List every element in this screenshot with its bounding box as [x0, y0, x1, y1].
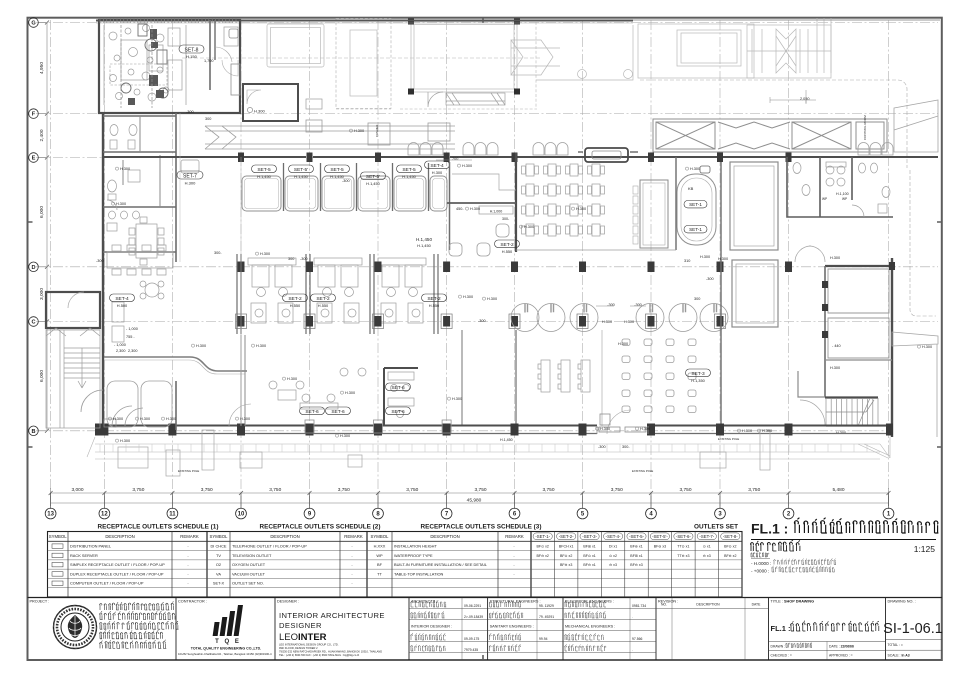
svg-text:3,750: 3,750 [338, 487, 350, 493]
svg-text:H.300: H.300 [618, 342, 628, 346]
H.1,000 small tables [0, 0, 1, 1]
svg-text:SET-5: SET-5 [330, 167, 344, 173]
reception counter [104, 357, 247, 371]
svg-text:TEL : (+66 2) 6601700 FAX :: TEL : (+66 2) 6601700 FAX : (+66 2) 6601… [279, 653, 360, 657]
svg-text:C: C [31, 320, 35, 326]
hall wall x721 [720, 162, 722, 426]
svg-text:DESCRIPTION: DESCRIPTION [105, 534, 134, 539]
svg-text:99.94: 99.94 [539, 637, 548, 641]
svg-text:D: D [31, 265, 35, 271]
svg-text:300: 300 [694, 297, 700, 301]
svg-text:2,300: 2,300 [128, 349, 138, 353]
svg-text:3,000: 3,000 [39, 288, 45, 300]
svg-text:- 440: - 440 [832, 344, 841, 348]
waiting chairs rows [408, 143, 893, 156]
svg-text:H.1,100: H.1,100 [836, 192, 849, 196]
grid bubbles left [29, 18, 47, 436]
svg-text:BF⊞ x1: BF⊞ x1 [583, 545, 595, 549]
svg-text:TT⊖ x3: TT⊖ x3 [677, 554, 689, 558]
small tables near SET-6 [300, 368, 366, 409]
svg-text:.: . [632, 648, 633, 652]
svg-text:SET-6: SET-6 [331, 409, 345, 415]
svg-text:BF: BF [377, 562, 383, 567]
svg-text:H.150: H.150 [186, 54, 197, 59]
meeting room walls [515, 153, 517, 252]
svg-text:1,700: 1,700 [204, 59, 214, 63]
interior light column grid squares mid hall [305, 420, 451, 433]
svg-text:BF⊙ x2: BF⊙ x2 [724, 545, 736, 549]
lounge booths [107, 381, 172, 427]
svg-text:-SET-4-: -SET-4- [606, 534, 621, 539]
svg-text:SI-1-06.1: SI-1-06.1 [883, 621, 943, 637]
svg-text:310: 310 [684, 259, 690, 263]
svg-text:DI CHCE: DI CHCE [211, 544, 227, 549]
SET-7 label [181, 160, 199, 173]
svg-text:H.300: H.300 [113, 417, 123, 421]
svg-text:BF⊖ x2: BF⊖ x2 [724, 554, 736, 558]
svg-text:DESCRIPTION: DESCRIPTION [430, 534, 459, 539]
svg-text:-SET-6-: -SET-6- [676, 534, 691, 539]
svg-text:300: 300 [205, 117, 211, 121]
office roomlet x449-516 [447, 162, 516, 256]
svg-text:REMARK: REMARK [180, 534, 199, 539]
svg-text:H.300: H.300 [718, 257, 728, 261]
svg-text:RECEPTACLE OUTLETS SCHEDULE (1: RECEPTACLE OUTLETS SCHEDULE (1) [98, 524, 219, 531]
svg-text:CHECKED : =: CHECKED : = [771, 654, 792, 658]
svg-text:SIMPLEX RECEPTACLE OUTLET / FL: SIMPLEX RECEPTACLE OUTLET / FLOOR / POP-… [70, 562, 165, 567]
svg-text:BF⊖ x3: BF⊖ x3 [654, 545, 666, 549]
svg-text:BFCH x1: BFCH x1 [559, 545, 574, 549]
svg-text:99th FLOOR, DESIGN TOWER 2: 99th FLOOR, DESIGN TOWER 2 [279, 646, 318, 650]
door arcs corridor right [795, 246, 825, 262]
toilet fixtures left wing [107, 125, 140, 232]
svg-text:-300: -300 [634, 303, 642, 307]
columns rows D and C [238, 262, 793, 327]
svg-text:⊖ x3: ⊖ x3 [609, 563, 617, 567]
svg-text:H.300: H.300 [602, 320, 612, 324]
svg-text:H.300: H.300 [260, 252, 270, 256]
svg-text:1:125: 1:125 [914, 544, 936, 554]
svg-text:PROJECT :: PROJECT : [30, 600, 50, 604]
svg-text:DATE: DATE [752, 603, 762, 607]
svg-text:H.500: H.500 [117, 303, 128, 308]
svg-text:79. 49291: 79. 49291 [539, 615, 554, 619]
svg-text:H.300: H.300 [463, 295, 473, 299]
svg-text:E: E [32, 156, 36, 162]
svg-text:95. 11929: 95. 11929 [539, 604, 554, 608]
svg-text:EXISTING POLE: EXISTING POLE [178, 469, 199, 473]
svg-text:TOTAL : =: TOTAL : = [888, 643, 903, 647]
svg-text:⊙ x1: ⊙ x1 [703, 545, 711, 549]
left wing lower entry doors [81, 390, 143, 426]
svg-text:09-06.2291: 09-06.2291 [464, 604, 481, 608]
svg-text:- 1,000: - 1,000 [114, 343, 126, 347]
svg-text:SET-X: SET-X [213, 581, 225, 586]
canopy tick marks below B wall [100, 444, 867, 452]
west wall of hall seating area [515, 330, 517, 430]
svg-text:3,750: 3,750 [611, 487, 623, 493]
svg-text:DRAWN :: DRAWN : [771, 645, 786, 649]
svg-text:-SET-5-: -SET-5- [629, 534, 644, 539]
svg-text:⊖ x3: ⊖ x3 [703, 554, 711, 558]
svg-text:SET-6: SET-6 [305, 409, 319, 415]
svg-text:SET-2: SET-2 [500, 242, 514, 248]
bottom exterior wall B [95, 426, 892, 434]
ramp wedges right [892, 332, 938, 346]
svg-text:H.XXX: H.XXX [374, 544, 386, 549]
svg-text:EXISTING POLE: EXISTING POLE [632, 469, 653, 473]
svg-text:MECHANICAL ENGINEERS :: MECHANICAL ENGINEERS : [565, 625, 615, 629]
svg-text:H.300: H.300 [690, 167, 700, 171]
receptacle outlets schedule tables [48, 524, 743, 598]
svg-text:BF⊖ x3: BF⊖ x3 [560, 563, 572, 567]
svg-text:INTERIOR ARCHITECTURE: INTERIOR ARCHITECTURE [279, 611, 385, 620]
svg-text:-SET-2-: -SET-2- [559, 534, 574, 539]
partition near SET-8 [214, 20, 216, 60]
svg-text:H.300: H.300 [462, 164, 472, 168]
svg-text:REMARK: REMARK [344, 534, 363, 539]
svg-text:TT: TT [377, 571, 382, 576]
roof outline rects top band [267, 18, 831, 109]
svg-text:2>-09.18439: 2>-09.18439 [464, 615, 483, 619]
svg-text:.: . [632, 615, 633, 619]
svg-text:H.550: H.550 [290, 303, 301, 308]
svg-text:6,000: 6,000 [39, 370, 45, 382]
svg-text:H.300: H.300 [256, 344, 266, 348]
svg-text:H.300: H.300 [354, 129, 364, 133]
dashed ceiling boundary [640, 80, 907, 168]
canopy below B [87, 437, 890, 459]
svg-text:H.1,450: H.1,450 [294, 174, 308, 179]
svg-text:H.300: H.300 [120, 167, 130, 171]
svg-text:DESIGNER: DESIGNER [279, 621, 322, 630]
svg-text:3,750: 3,750 [475, 487, 487, 493]
title block [28, 598, 943, 661]
conference table [640, 180, 668, 248]
svg-text:REMARK: REMARK [505, 534, 524, 539]
svg-text:H.300: H.300 [452, 397, 462, 401]
svg-text:H.300: H.300 [470, 207, 480, 211]
svg-text:SET-8: SET-8 [185, 47, 199, 53]
svg-text:H.300: H.300 [185, 181, 196, 186]
svg-text:H.300: H.300 [240, 417, 250, 421]
drawing title FL.1 Thai [751, 518, 939, 574]
round tables [511, 304, 728, 332]
svg-text:-300: -300 [300, 257, 308, 261]
svg-text:LEOINTER: LEOINTER [279, 632, 327, 643]
svg-text:H.300: H.300 [287, 377, 297, 381]
svg-text:TABLE-TOP INSTALLATION: TABLE-TOP INSTALLATION [394, 571, 444, 576]
svg-text:VA: VA [216, 571, 221, 576]
svg-text:300: 300 [288, 257, 294, 261]
svg-text:12: 12 [101, 512, 108, 518]
entry gap dims between tables [602, 303, 642, 324]
svg-text:TITLE : SHOP DRAWING: TITLE : SHOP DRAWING [771, 600, 815, 604]
svg-text:- +0000 :: - +0000 : [751, 569, 769, 574]
svg-text:H.300: H.300 [762, 429, 772, 433]
svg-text:WP: WP [376, 553, 383, 558]
svg-text:3,750: 3,750 [748, 487, 760, 493]
svg-text:H.300: H.300 [830, 256, 840, 260]
kiosk counter SET-1 [677, 174, 716, 245]
svg-text:SET-5: SET-5 [402, 167, 416, 173]
svg-text:H.300: H.300 [166, 417, 176, 421]
svg-text:SET-5: SET-5 [257, 167, 271, 173]
svg-text:H.550: H.550 [318, 303, 329, 308]
svg-text:INSTALLATION HEIGHT: INSTALLATION HEIGHT [394, 544, 437, 549]
svg-text:-300: -300 [342, 179, 350, 183]
top wall hatch ticks [100, 19, 236, 24]
svg-text:BF⊞ x1: BF⊞ x1 [630, 554, 642, 558]
svg-text:7979.435: 7979.435 [464, 648, 478, 652]
equipment room [99, 20, 240, 113]
svg-text:13: 13 [47, 512, 54, 518]
grid E wall [103, 156, 938, 158]
svg-text:TV: TV [216, 553, 221, 558]
svg-text:DESCRIPTION: DESCRIPTION [270, 534, 299, 539]
svg-text:SET-5': SET-5' [294, 167, 308, 173]
svg-text:3,000: 3,000 [71, 487, 83, 493]
dimension chain bottom [51, 488, 889, 506]
svg-text:09-09.175: 09-09.175 [464, 637, 479, 641]
bench seat dark [585, 148, 628, 162]
svg-text:DI x1: DI x1 [609, 545, 617, 549]
svg-text:CONTRACTOR :: CONTRACTOR : [178, 600, 207, 604]
svg-text:T Q E: T Q E [215, 639, 241, 645]
svg-text:WP: WP [842, 197, 847, 201]
svg-text:RECEPTACLE OUTLETS SCHEDULE (3: RECEPTACLE OUTLETS SCHEDULE (3) [421, 524, 542, 531]
svg-text:SET-2: SET-2 [427, 296, 441, 302]
toilets right [787, 157, 893, 217]
svg-text:DISTRIBUTION PANEL: DISTRIBUTION PANEL [70, 544, 112, 549]
svg-text:H.1,450: H.1,450 [500, 438, 513, 442]
svg-text:LEO INTERNATIONAL DESIGN GROUP: LEO INTERNATIONAL DESIGN GROUP CO., LTD. [279, 643, 339, 647]
svg-text:BF⊙ x1: BF⊙ x1 [583, 554, 595, 558]
svg-text:2,400: 2,400 [39, 129, 45, 141]
svg-text:H.300: H.300 [624, 320, 634, 324]
right rooms [825, 265, 892, 267]
svg-text:300-: 300- [502, 217, 510, 221]
svg-text:CONTROL ROOM: CONTROL ROOM [863, 115, 867, 140]
svg-text:BF⊙ x2: BF⊙ x2 [537, 545, 549, 549]
svg-text:-SET-7-: -SET-7- [699, 534, 714, 539]
svg-text:300-: 300- [622, 445, 630, 449]
svg-text:DATE : 22/06/66: DATE : 22/06/66 [829, 645, 854, 649]
svg-text:H.1,450: H.1,450 [366, 181, 380, 186]
svg-text:TOTAL QUALITY ENGINEERING CO.,: TOTAL QUALITY ENGINEERING CO.,LTD. [191, 647, 262, 651]
dark machines [128, 29, 164, 105]
svg-text:FL.1 :: FL.1 : [751, 521, 788, 537]
structural grid dash-dot lines [36, 20, 938, 508]
svg-text:RECEPTACLE OUTLETS SCHEDULE (2: RECEPTACLE OUTLETS SCHEDULE (2) [260, 524, 381, 531]
svg-text:BUILT-IN FURNITURE INSTALLATIO: BUILT-IN FURNITURE INSTALLATION / SEE DE… [394, 562, 488, 567]
svg-text:EXISTING POLE: EXISTING POLE [718, 437, 739, 441]
svg-text:BF⊖ x2: BF⊖ x2 [537, 554, 549, 558]
svg-text:B: B [31, 429, 35, 435]
svg-text:SET-4: SET-4 [430, 163, 444, 169]
svg-text:6,000: 6,000 [39, 206, 45, 218]
svg-text:97.566: 97.566 [632, 637, 642, 641]
svg-text:- 1,000: - 1,000 [126, 327, 138, 331]
svg-text:H.300: H.300 [524, 225, 534, 229]
svg-text:OXYGEN OUTLET: OXYGEN OUTLET [232, 562, 266, 567]
lift shafts [730, 162, 778, 250]
top exterior wall [96, 19, 940, 21]
svg-text:WATERPROOF TYPE: WATERPROOF TYPE [394, 553, 433, 558]
SET-5 booths [242, 176, 447, 211]
svg-text:SET-2: SET-2 [316, 296, 330, 302]
svg-text:H.300: H.300 [600, 427, 610, 431]
machine tracks dashed [121, 25, 152, 108]
svg-text:NO.: NO. [661, 603, 667, 607]
svg-text:COMPUTER OUTLET / FLOOR / POP-: COMPUTER OUTLET / FLOOR / POP-UP [70, 581, 144, 586]
svg-text:SET-6: SET-6 [391, 409, 405, 415]
svg-text:H.300: H.300 [640, 427, 650, 431]
SET-2 labels [283, 240, 520, 302]
svg-text:TELEVISION OUTLET: TELEVISION OUTLET [232, 553, 272, 558]
left wing walls [102, 113, 104, 430]
svg-text:3,750: 3,750 [542, 487, 554, 493]
grid bubbles bottom [45, 508, 894, 519]
svg-text:4,950: 4,950 [39, 62, 45, 74]
columns row E [238, 153, 792, 163]
svg-text:INTERIOR DESIGNER :: INTERIOR DESIGNER : [411, 625, 452, 629]
svg-text:2,300: 2,300 [116, 349, 126, 353]
svg-text:5,480: 5,480 [832, 487, 844, 493]
svg-text:H.300: H.300 [700, 255, 710, 259]
svg-text:H.1,450: H.1,450 [417, 243, 431, 248]
svg-text:-SET-5'-: -SET-5'- [652, 534, 668, 539]
svg-text:-300: -300 [706, 277, 714, 281]
meeting tables [522, 164, 605, 236]
svg-text:SET-5': SET-5' [366, 174, 380, 180]
svg-text:SYMBOL: SYMBOL [210, 534, 229, 539]
svg-text:H.300: H.300 [922, 345, 932, 349]
big room corner columns [408, 19, 520, 95]
svg-text:H.300: H.300 [116, 202, 126, 206]
dimension chain left [46, 23, 48, 431]
svg-text:SET-6: SET-6 [391, 385, 405, 391]
ramp top right [894, 100, 938, 152]
svg-text:VACUUM OUTLET: VACUUM OUTLET [232, 571, 266, 576]
svg-text:-300: -300 [186, 110, 194, 114]
SET-3 labels [686, 369, 711, 377]
svg-text:H.1,450: H.1,450 [416, 237, 433, 242]
svg-text:3,750: 3,750 [269, 487, 281, 493]
desks left of chair grid [538, 360, 590, 392]
svg-text:SET-4: SET-4 [115, 296, 129, 302]
svg-text:DUPLEX RECEPTACLE OUTLET / FLO: DUPLEX RECEPTACLE OUTLET / FLOOR / POP-U… [70, 571, 164, 576]
SET-4 dining left [107, 245, 173, 299]
svg-text:BF⊚ x1: BF⊚ x1 [630, 545, 642, 549]
svg-text:SET-3: SET-3 [691, 371, 705, 377]
svg-text:-SET-8-: -SET-8- [723, 534, 738, 539]
SET-2 workstation partitions [237, 254, 438, 334]
svg-text:RACK SERVER: RACK SERVER [70, 553, 98, 558]
svg-text:700: 700 [452, 157, 458, 161]
svg-text:-SET-1-: -SET-1- [535, 534, 550, 539]
svg-text:H.300: H.300 [120, 439, 130, 443]
svg-text:-300: -300 [96, 259, 104, 263]
svg-text:H.300: H.300 [830, 366, 840, 370]
svg-text:APPROVED : =: APPROVED : = [829, 654, 853, 658]
svg-text:SET-7: SET-7 [183, 173, 197, 179]
svg-text:H.300: H.300 [487, 297, 497, 301]
left room C [46, 292, 100, 328]
svg-text:FL.1 :: FL.1 : [771, 624, 791, 633]
dim witness small marks [436, 90, 816, 306]
svg-text:WP: WP [822, 197, 827, 201]
svg-text:SYMBOL: SYMBOL [371, 534, 390, 539]
svg-text:3,750: 3,750 [201, 487, 213, 493]
svg-text:11: 11 [169, 512, 176, 518]
svg-text:O2: O2 [216, 562, 221, 567]
vestibule room [243, 84, 298, 121]
svg-text:F: F [32, 112, 36, 118]
main entry doors [597, 414, 648, 434]
svg-text:0981.734: 0981.734 [632, 604, 646, 608]
svg-text:BF⊖ x1: BF⊖ x1 [583, 563, 595, 567]
svg-text:450-: 450- [456, 207, 464, 211]
svg-text:SET-2: SET-2 [288, 296, 302, 302]
stair right [825, 396, 878, 398]
svg-text:45,980: 45,980 [467, 497, 482, 503]
svg-text:DRAWING NO. :: DRAWING NO. : [888, 600, 916, 604]
svg-text:-300: -300 [607, 303, 615, 307]
svg-text:DESCRIPTION: DESCRIPTION [696, 603, 720, 607]
svg-text:3,750: 3,750 [679, 487, 691, 493]
svg-text:H.300: H.300 [140, 417, 150, 421]
svg-text:TT⊙ x1: TT⊙ x1 [677, 545, 689, 549]
svg-text:-300: -300 [478, 319, 486, 323]
dining table left [129, 217, 164, 265]
svg-text:H.1,000: H.1,000 [490, 210, 503, 214]
misc H.300 labels [108, 129, 932, 443]
svg-text:101/82 Senghuathin-Chalthaba R: 101/82 Senghuathin-Chalthaba Rd., Talsha… [178, 652, 272, 656]
svg-text:SET-1: SET-1 [689, 227, 702, 232]
interior partition near x241 [241, 335, 245, 426]
svg-text:DESIGNER :: DESIGNER : [277, 600, 299, 604]
SET-6 coffee kiosk [384, 368, 418, 425]
svg-text:⊙ x2: ⊙ x2 [609, 554, 617, 558]
svg-text:H.300: H.300 [576, 207, 586, 211]
svg-text:H.550: H.550 [502, 249, 513, 254]
svg-text:- H.0000 :: - H.0000 : [751, 561, 771, 566]
SET-2 desks [248, 258, 426, 323]
svg-text:300-: 300- [214, 251, 222, 255]
svg-text:CASHIER: CASHIER [375, 125, 379, 137]
svg-text:H.300: H.300 [254, 109, 265, 114]
svg-text:H.1,450: H.1,450 [402, 174, 416, 179]
svg-text:H.1,450: H.1,450 [257, 174, 271, 179]
svg-text:SANITARY ENGINEERS :: SANITARY ENGINEERS : [490, 625, 534, 629]
SET-8 label [179, 45, 204, 53]
svg-text:-300: -300 [598, 445, 606, 449]
svg-text:H.300: H.300 [345, 391, 355, 395]
svg-text:79/230-232 NEW RATCHADAPISEK R: 79/230-232 NEW RATCHADAPISEK RD., HUAIKH… [279, 650, 382, 654]
svg-text:BF⊖ x3: BF⊖ x3 [630, 563, 642, 567]
svg-text:H.550: H.550 [429, 303, 440, 308]
escalator band [653, 119, 887, 152]
svg-text:H.1,350: H.1,350 [691, 378, 705, 383]
svg-text:755 -: 755 - [126, 335, 135, 339]
H.300 labels right [618, 255, 846, 435]
svg-text:10: 10 [238, 512, 245, 518]
left stairs [46, 328, 100, 428]
svg-text:KB: KB [688, 186, 694, 191]
svg-text:H.300: H.300 [742, 429, 752, 433]
svg-text:H.300: H.300 [196, 344, 206, 348]
